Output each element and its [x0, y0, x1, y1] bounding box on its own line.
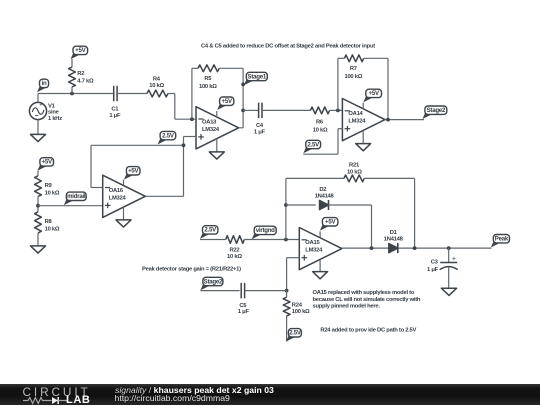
svg-text:R24: R24: [292, 302, 303, 308]
svg-text:LM324: LM324: [348, 119, 366, 125]
svg-text:10 kΩ: 10 kΩ: [149, 83, 164, 89]
svg-text:OA14: OA14: [348, 111, 363, 117]
svg-text:1N4148: 1N4148: [315, 194, 335, 200]
svg-text:1 μF: 1 μF: [427, 267, 439, 273]
svg-text:Stage2: Stage2: [204, 278, 223, 285]
svg-text:in: in: [42, 80, 47, 87]
svg-text:+5V: +5V: [75, 47, 86, 54]
svg-text:OA15 replaced with supplyless: OA15 replaced with supplyless model to: [313, 290, 415, 296]
svg-text:R2: R2: [77, 71, 84, 77]
svg-text:C5: C5: [239, 303, 247, 309]
svg-text:R6: R6: [316, 119, 324, 125]
svg-text:LM324: LM324: [305, 248, 323, 254]
svg-text:V1: V1: [48, 103, 56, 109]
svg-text:Peak detector stage gain = (R2: Peak detector stage gain = (R21/R22+1): [142, 267, 241, 273]
svg-text:R5: R5: [204, 76, 212, 82]
svg-text:R7: R7: [350, 66, 357, 72]
svg-text:1 μF: 1 μF: [254, 130, 266, 136]
svg-text:+: +: [39, 102, 42, 108]
svg-text:D1: D1: [390, 230, 398, 236]
svg-text:10 kΩ: 10 kΩ: [313, 127, 328, 133]
svg-text:+5V: +5V: [369, 90, 380, 97]
svg-text:10 kΩ: 10 kΩ: [45, 226, 60, 232]
svg-text:+5V: +5V: [42, 159, 53, 166]
svg-text:LM324: LM324: [109, 195, 127, 201]
svg-text:R21: R21: [349, 162, 360, 168]
svg-text:1 kHz: 1 kHz: [48, 116, 62, 122]
svg-text:4.7 kΩ: 4.7 kΩ: [77, 78, 94, 84]
svg-text:LM324: LM324: [202, 127, 220, 133]
svg-text:Peak: Peak: [495, 236, 509, 243]
svg-text:2.5V: 2.5V: [204, 227, 217, 234]
svg-text:C1: C1: [111, 107, 119, 113]
svg-text:R24 added to prov ide DC path: R24 added to prov ide DC path to 2.5V: [320, 327, 416, 333]
svg-text:1 μF: 1 μF: [109, 113, 121, 119]
svg-text:+5V: +5V: [128, 168, 139, 175]
svg-text:OA13: OA13: [202, 119, 217, 125]
svg-text:+: +: [452, 256, 456, 263]
svg-text:virtgnd: virtgnd: [256, 227, 275, 234]
svg-text:2.5V: 2.5V: [162, 132, 175, 139]
svg-text:supply pinned model here.: supply pinned model here.: [313, 304, 381, 310]
svg-text:R9: R9: [45, 183, 53, 189]
svg-text:10 kΩ: 10 kΩ: [227, 254, 242, 260]
svg-text:2.5V: 2.5V: [307, 141, 320, 148]
svg-text:OA15: OA15: [305, 240, 320, 246]
svg-text:because CL will not simulate c: because CL will not simulate correctly w…: [313, 297, 421, 303]
svg-text:100 kΩ: 100 kΩ: [199, 84, 217, 90]
svg-text:1 μF: 1 μF: [238, 309, 250, 315]
svg-text:+5V: +5V: [222, 98, 233, 105]
svg-text:midrail: midrail: [67, 193, 86, 200]
svg-text:Stage2: Stage2: [427, 107, 446, 114]
svg-text:D2: D2: [319, 187, 326, 193]
svg-text:Stage1: Stage1: [248, 73, 267, 80]
svg-text:OA16: OA16: [109, 188, 124, 194]
svg-text:10 kΩ: 10 kΩ: [347, 169, 362, 175]
svg-text:100 kΩ: 100 kΩ: [344, 74, 362, 80]
svg-text:+5V: +5V: [325, 219, 336, 226]
svg-text:C4 & C5 added to reduce DC off: C4 & C5 added to reduce DC offset at Sta…: [201, 44, 375, 50]
svg-text:1N4148: 1N4148: [384, 236, 404, 242]
svg-text:sine: sine: [48, 110, 60, 116]
svg-text:R22: R22: [229, 248, 239, 254]
svg-text:2.5V: 2.5V: [289, 330, 302, 337]
svg-text:R8: R8: [45, 219, 53, 225]
svg-text:100 kΩ: 100 kΩ: [292, 309, 310, 315]
svg-text:C3: C3: [431, 260, 439, 266]
svg-text:C4: C4: [256, 123, 264, 129]
svg-text:10 kΩ: 10 kΩ: [45, 190, 60, 196]
svg-text:R4: R4: [153, 76, 161, 82]
